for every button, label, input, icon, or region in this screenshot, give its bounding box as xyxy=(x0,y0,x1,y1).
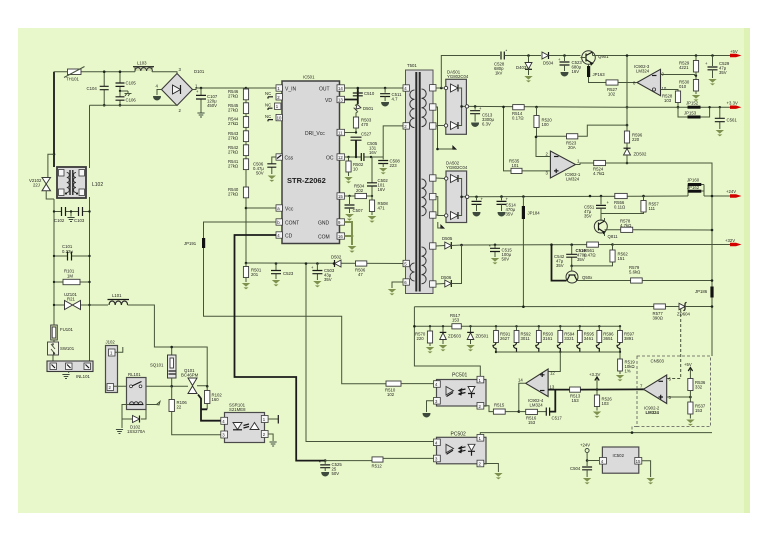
svg-text:4.7kΩ: 4.7kΩ xyxy=(620,223,632,228)
svg-text:GND: GND xyxy=(318,221,330,227)
zener ZD501 xyxy=(466,325,489,351)
pin CD xyxy=(276,232,293,240)
resistor R595 xyxy=(577,325,595,352)
svg-text:SQ101: SQ101 xyxy=(150,363,164,368)
wire R577 row xyxy=(414,306,653,308)
svg-text:+24V: +24V xyxy=(580,443,590,448)
svg-text:3011: 3011 xyxy=(521,336,531,341)
svg-text:S21ME8: S21ME8 xyxy=(229,407,246,412)
zener D501 xyxy=(354,104,374,117)
wire GND/COM xyxy=(345,222,357,253)
wire R557 bottom row xyxy=(601,212,644,214)
svg-text:JP186: JP186 xyxy=(695,289,708,294)
diode D504 xyxy=(542,52,581,66)
svg-text:Q811: Q811 xyxy=(608,234,619,239)
+32V arrow xyxy=(725,238,742,246)
resistor R562 xyxy=(610,243,628,262)
resistor R596 xyxy=(596,325,614,352)
wire OC row xyxy=(345,156,384,158)
svg-text:1%: 1% xyxy=(625,369,631,374)
jumper JP153 xyxy=(678,106,711,119)
svg-text:160: 160 xyxy=(212,397,220,402)
svg-text:V_IN: V_IN xyxy=(285,87,297,93)
resistor R106 xyxy=(169,386,221,435)
svg-text:JP191: JP191 xyxy=(184,241,197,246)
op-amp IC902-2 xyxy=(640,375,672,415)
resistor R541 xyxy=(228,159,249,170)
capacitor C507 xyxy=(345,195,364,221)
svg-text:DRI_Vcc: DRI_Vcc xyxy=(305,131,325,137)
wire OUT to T501 xyxy=(345,87,404,89)
svg-text:YG802C04: YG802C04 xyxy=(446,165,468,170)
diode D502 xyxy=(331,255,342,268)
svg-text:3891: 3891 xyxy=(624,336,634,341)
svg-text:223: 223 xyxy=(390,163,398,168)
resistor R513 xyxy=(570,387,645,403)
wire IC502 out to ground xyxy=(642,461,655,485)
wire V2102 branch xyxy=(48,154,54,177)
pin GND xyxy=(318,219,345,227)
svg-text:L103: L103 xyxy=(137,61,147,66)
resistor R508 xyxy=(368,196,389,223)
T501 right pins xyxy=(430,85,436,91)
wire bridge output xyxy=(193,88,283,90)
wire output 1 xyxy=(576,163,594,165)
jumper JP152 xyxy=(620,101,730,109)
dashed wire to pin6 xyxy=(667,309,681,379)
svg-text:ZD502: ZD502 xyxy=(634,152,648,157)
svg-text:Q50x: Q50x xyxy=(582,275,593,280)
common-mode choke L102 xyxy=(57,167,103,198)
node V_IN xyxy=(245,87,248,90)
pin OC xyxy=(326,154,345,162)
wire bus B xyxy=(414,325,620,327)
resistor R102 xyxy=(205,386,223,409)
svg-text:101: 101 xyxy=(512,163,520,168)
svg-text:151: 151 xyxy=(618,256,626,261)
svg-text:201: 201 xyxy=(251,272,259,277)
resistor R529 xyxy=(679,54,699,79)
T501 left pin 4 xyxy=(403,85,409,91)
capacitor C105 xyxy=(116,70,137,91)
svg-text:NC: NC xyxy=(265,91,271,96)
wire T501 to DA502 bottom xyxy=(436,197,445,216)
svg-text:C102: C102 xyxy=(54,218,65,223)
svg-text:10: 10 xyxy=(662,86,667,91)
resistor R596b xyxy=(624,131,642,148)
capacitor C505 xyxy=(361,141,378,161)
svg-text:153: 153 xyxy=(695,408,703,413)
varistor UZ101 xyxy=(53,292,91,310)
svg-text:C106: C106 xyxy=(126,98,137,103)
wire T501 pin2 to OC node xyxy=(383,126,403,157)
svg-text:C523: C523 xyxy=(283,271,294,276)
capacitor C512 xyxy=(472,196,484,217)
svg-text:0.17Ω: 0.17Ω xyxy=(512,116,524,121)
svg-text:27kΩ: 27kΩ xyxy=(228,135,239,140)
svg-text:27kΩ: 27kΩ xyxy=(228,149,239,154)
capacitor C527 xyxy=(351,132,372,158)
wire J102 pin2 row xyxy=(114,385,188,387)
svg-text:50V: 50V xyxy=(332,471,340,476)
svg-text:35V: 35V xyxy=(324,277,332,282)
ground between C102/C103 xyxy=(67,210,74,221)
wire pin5 xyxy=(667,396,691,398)
capacitor C528 xyxy=(494,49,541,76)
resistor R578 xyxy=(605,219,714,233)
resistor R530 xyxy=(679,80,700,102)
svg-text:CN503: CN503 xyxy=(651,359,665,364)
svg-text:16V: 16V xyxy=(369,150,377,155)
svg-text:D101: D101 xyxy=(194,69,205,74)
svg-text:Q901: Q901 xyxy=(598,54,609,59)
resistor R544 xyxy=(228,117,249,128)
capacitor C516 xyxy=(576,248,588,262)
spark gap SQ101 xyxy=(150,346,176,388)
svg-text:6.3V: 6.3V xyxy=(482,122,491,127)
capacitor C104 xyxy=(87,70,109,106)
pin COM xyxy=(318,233,345,241)
wire J102 pin1 xyxy=(115,347,123,352)
op-amp IC902-3 xyxy=(633,64,667,96)
+24V rail wire xyxy=(469,195,730,198)
svg-text:12: 12 xyxy=(550,371,555,376)
thick wire Q101 to SSR101 xyxy=(198,395,221,421)
resistor R535 xyxy=(502,106,550,174)
wire bus to PC502 pin a xyxy=(306,264,437,442)
svg-text:VD: VD xyxy=(325,98,332,104)
svg-text:0.11Ω: 0.11Ω xyxy=(614,205,626,210)
+3.3V rail junctions xyxy=(626,106,629,109)
wire PC501 pin3 ground xyxy=(423,401,434,417)
optocoupler PC502 xyxy=(434,432,487,467)
svg-text:27kΩ: 27kΩ xyxy=(228,94,239,99)
inductor L103 xyxy=(133,61,154,72)
svg-text:JP184: JP184 xyxy=(528,211,541,216)
svg-text:ZD501: ZD501 xyxy=(476,334,490,339)
+3.3V arrow xyxy=(727,100,742,109)
T501 left pin aux2 xyxy=(403,279,409,285)
svg-text:471: 471 xyxy=(378,206,386,211)
wire T501 to DA502 top xyxy=(436,177,445,180)
wire bus C xyxy=(496,352,620,359)
resistor R577 xyxy=(653,304,679,321)
svg-text:D502: D502 xyxy=(331,255,342,260)
svg-text:C507: C507 xyxy=(353,208,364,213)
T501 left pin 2 xyxy=(403,123,409,129)
svg-text:153: 153 xyxy=(572,398,580,403)
svg-text:1M: 1M xyxy=(67,274,73,279)
capacitor C107 electrolytic xyxy=(196,87,218,117)
+5V feed arrow xyxy=(684,362,693,379)
svg-text:C527: C527 xyxy=(361,132,372,137)
pin 3 NC xyxy=(265,103,281,111)
dashed enclosure xyxy=(632,356,711,433)
svg-text:1kV: 1kV xyxy=(495,71,503,76)
resistor R537 xyxy=(686,402,706,426)
node junction xyxy=(53,153,56,156)
resistor R557 xyxy=(641,195,659,212)
svg-text:3161: 3161 xyxy=(543,336,553,341)
capacitor C502 xyxy=(367,157,388,197)
svg-text:111: 111 xyxy=(649,206,656,211)
svg-text:16V: 16V xyxy=(572,69,580,74)
svg-text:27kΩ: 27kΩ xyxy=(228,192,239,197)
resistor R516 xyxy=(519,409,546,425)
capacitor C504 xyxy=(570,461,592,485)
svg-text:IC502: IC502 xyxy=(613,453,625,458)
pin CONT xyxy=(276,219,299,227)
pin DRI_Vcc xyxy=(305,129,345,137)
svg-text:ZD503: ZD503 xyxy=(448,334,462,339)
svg-text:D504: D504 xyxy=(543,61,554,66)
diode D505 xyxy=(436,236,613,249)
svg-text:+5V: +5V xyxy=(684,362,692,367)
wire Vcc xyxy=(246,207,276,209)
svg-text:332: 332 xyxy=(695,385,703,390)
resistor R546 xyxy=(228,89,249,100)
svg-text:10: 10 xyxy=(353,167,358,172)
pin OUT xyxy=(319,85,345,93)
svg-text:IC501: IC501 xyxy=(303,75,315,80)
resistor R512 xyxy=(372,457,437,469)
wire xyxy=(245,114,247,117)
capacitor C503 xyxy=(311,262,335,287)
transistor Q50x xyxy=(566,266,593,283)
capacitor C561 xyxy=(715,106,738,136)
svg-text:LM324: LM324 xyxy=(636,68,650,73)
svg-text:35V: 35V xyxy=(584,214,592,219)
T501 primary winding xyxy=(410,90,415,128)
fuse FU101 xyxy=(51,325,74,340)
wire left rail upper xyxy=(53,155,55,167)
svg-text:CONT: CONT xyxy=(285,221,299,227)
svg-text:102: 102 xyxy=(387,392,395,397)
resistor R514 xyxy=(512,105,524,121)
svg-text:3321: 3321 xyxy=(564,336,574,341)
wire bottom bus xyxy=(246,262,403,265)
svg-text:1SS270A: 1SS270A xyxy=(127,429,145,434)
wire right rail top xyxy=(89,105,91,168)
transistor Q811 xyxy=(594,214,618,239)
svg-text:YG802C04: YG802C04 xyxy=(447,74,469,79)
varistor V2102 xyxy=(29,178,54,200)
svg-text:R21: R21 xyxy=(67,297,75,302)
wire T501 pin to center tap xyxy=(436,126,456,150)
zener D403 xyxy=(516,54,533,82)
ground left of D102 xyxy=(116,419,123,434)
wire T501 sec pin to DA501 lower diode xyxy=(436,107,444,126)
wire +5V rail xyxy=(593,55,731,57)
+24V circle feed xyxy=(580,443,590,462)
wire xyxy=(245,100,247,103)
capacitor C542 xyxy=(554,243,577,268)
triac Q101 xyxy=(181,368,209,394)
resistor R515 xyxy=(493,403,518,415)
+32V rail to arrow xyxy=(613,244,731,246)
svg-text:CD: CD xyxy=(285,234,293,240)
wire T501 winding2 tap ground arrow xyxy=(436,215,444,228)
pin VD xyxy=(325,96,345,104)
resistor R506 xyxy=(355,261,367,277)
svg-text:14: 14 xyxy=(338,86,343,91)
svg-text:LM324: LM324 xyxy=(646,410,660,415)
capacitor C529 xyxy=(705,54,730,85)
relay RL101 xyxy=(127,372,147,410)
wire bottom AC return xyxy=(90,104,178,106)
resistor R519 xyxy=(616,359,636,381)
svg-text:15: 15 xyxy=(636,459,641,464)
T501 secondary winding 3 xyxy=(422,247,427,284)
wire T501 sec1 to DA501 xyxy=(436,87,444,89)
resistor R536 xyxy=(688,379,706,403)
pin internal (R504) xyxy=(337,193,345,199)
wire PC502 pin2 ground xyxy=(484,464,503,480)
svg-text:+3.3V: +3.3V xyxy=(589,372,600,377)
diode D102 xyxy=(122,405,146,435)
zener ZD604 xyxy=(677,302,713,316)
svg-text:22: 22 xyxy=(177,405,182,410)
capacitor C106 xyxy=(116,91,137,106)
svg-text:35V: 35V xyxy=(506,212,514,217)
pin 2 NC xyxy=(265,91,282,100)
svg-text:390Ω: 390Ω xyxy=(653,316,664,321)
svg-text:L102: L102 xyxy=(92,182,103,188)
resistor R527 xyxy=(606,80,637,97)
svg-text:PC501: PC501 xyxy=(452,373,468,379)
svg-text:LM324: LM324 xyxy=(530,403,544,408)
resistor R570 xyxy=(415,325,434,353)
wire DRI_Vcc xyxy=(345,132,357,134)
jumper JP186 xyxy=(695,287,714,298)
svg-text:220: 220 xyxy=(632,137,640,142)
svg-text:35V: 35V xyxy=(719,70,727,75)
bridge rectifier D101 xyxy=(156,67,205,113)
svg-text:SW101: SW101 xyxy=(60,346,75,351)
svg-text:BC46PM: BC46PM xyxy=(181,373,199,378)
svg-text:C510: C510 xyxy=(364,91,375,96)
resistor R597 xyxy=(617,325,635,353)
resistor R501 xyxy=(242,263,262,289)
resistor R591 xyxy=(493,325,511,353)
svg-text:L101: L101 xyxy=(112,293,122,298)
svg-text:D501: D501 xyxy=(363,106,374,111)
svg-text:D403: D403 xyxy=(516,65,527,70)
svg-text:J102: J102 xyxy=(106,340,116,345)
svg-text:3461: 3461 xyxy=(584,336,594,341)
transistor Q901 xyxy=(581,51,610,65)
svg-text:16: 16 xyxy=(338,234,343,239)
diode D506 xyxy=(436,245,462,287)
wire xyxy=(245,142,247,145)
svg-text:D506: D506 xyxy=(441,275,452,280)
wire pin14 feedback xyxy=(519,383,526,411)
pin Css xyxy=(276,154,294,162)
chassis ground stub xyxy=(119,90,132,96)
wire PC501 pin2 to R515 xyxy=(484,406,494,412)
svg-text:470: 470 xyxy=(361,122,369,127)
resistor R543 xyxy=(228,131,249,142)
svg-text:4221: 4221 xyxy=(679,65,689,70)
svg-text:4.7: 4.7 xyxy=(392,97,399,102)
+24V arrow xyxy=(711,189,742,198)
wire top AC line xyxy=(53,72,55,155)
zener ZD502 xyxy=(624,148,648,164)
svg-text:C517: C517 xyxy=(552,416,563,421)
jumper JP163 xyxy=(587,64,606,83)
svg-text:103: 103 xyxy=(602,401,610,406)
svg-text:C104: C104 xyxy=(87,86,98,91)
resistor R528 xyxy=(662,91,681,107)
svg-text:T501: T501 xyxy=(407,63,417,68)
svg-text:0.22μ: 0.22μ xyxy=(62,249,73,254)
relay contact arrow xyxy=(146,402,160,405)
svg-text:35V: 35V xyxy=(556,263,564,268)
T501 left pin aux1 xyxy=(403,260,409,266)
wire CD thick xyxy=(235,235,326,461)
resistor R594 xyxy=(557,325,575,353)
svg-text:OUT: OUT xyxy=(319,87,330,93)
svg-text:ZD604: ZD604 xyxy=(677,312,691,317)
svg-text:27kΩ: 27kΩ xyxy=(228,163,239,168)
resistor R556 xyxy=(589,193,628,209)
op-amp IC902-4 xyxy=(518,369,555,408)
T501 secondary winding 2 xyxy=(422,179,427,216)
capacitor C551 xyxy=(584,195,610,219)
wire rails below L102 xyxy=(54,197,90,363)
pin 10 NC xyxy=(265,114,282,121)
svg-text:+3.3V: +3.3V xyxy=(727,100,738,105)
wire chain spine xyxy=(245,88,247,89)
svg-text:5.6kΩ: 5.6kΩ xyxy=(629,270,641,275)
svg-text:102: 102 xyxy=(608,92,616,97)
wire bus C to op-amp pin12 xyxy=(548,352,560,372)
svg-text:JP152: JP152 xyxy=(686,101,699,106)
T501 secondary winding 1 xyxy=(422,89,427,127)
wire pin10 to R528 xyxy=(661,90,679,92)
svg-text:NC: NC xyxy=(265,114,271,119)
resistor R592 xyxy=(514,325,532,352)
capacitor C514 xyxy=(497,195,517,216)
regulator IC502 xyxy=(587,447,642,473)
svg-text:0.47Ω: 0.47Ω xyxy=(584,253,596,258)
svg-text:PC502: PC502 xyxy=(451,432,467,438)
wire xyxy=(245,127,247,130)
svg-text:+32V: +32V xyxy=(725,238,735,243)
svg-text:100: 100 xyxy=(542,122,550,127)
svg-text:202: 202 xyxy=(356,188,364,193)
svg-text:COM: COM xyxy=(318,235,330,241)
thermistor TH101 xyxy=(64,67,85,82)
wire pin9 to R529/R530 node xyxy=(661,75,695,76)
ground at bridge pin4 xyxy=(154,90,162,101)
jumper JP184 xyxy=(522,195,540,307)
wire PC502 pin1 out xyxy=(480,433,712,435)
svg-text:3651: 3651 xyxy=(603,336,613,341)
svg-text:16V: 16V xyxy=(378,187,386,192)
svg-text:Vcc: Vcc xyxy=(285,207,294,213)
svg-text:20A: 20A xyxy=(568,145,576,150)
wire bus A left vertical xyxy=(414,307,480,377)
capacitor C513 xyxy=(470,105,494,126)
svg-text:C561: C561 xyxy=(727,118,738,123)
T501 aux winding xyxy=(410,263,415,281)
wire xyxy=(245,156,247,159)
capacitor C510 xyxy=(353,87,375,96)
svg-text:OC: OC xyxy=(326,156,334,162)
svg-text:11: 11 xyxy=(338,131,343,136)
+5V arrow xyxy=(730,49,742,57)
